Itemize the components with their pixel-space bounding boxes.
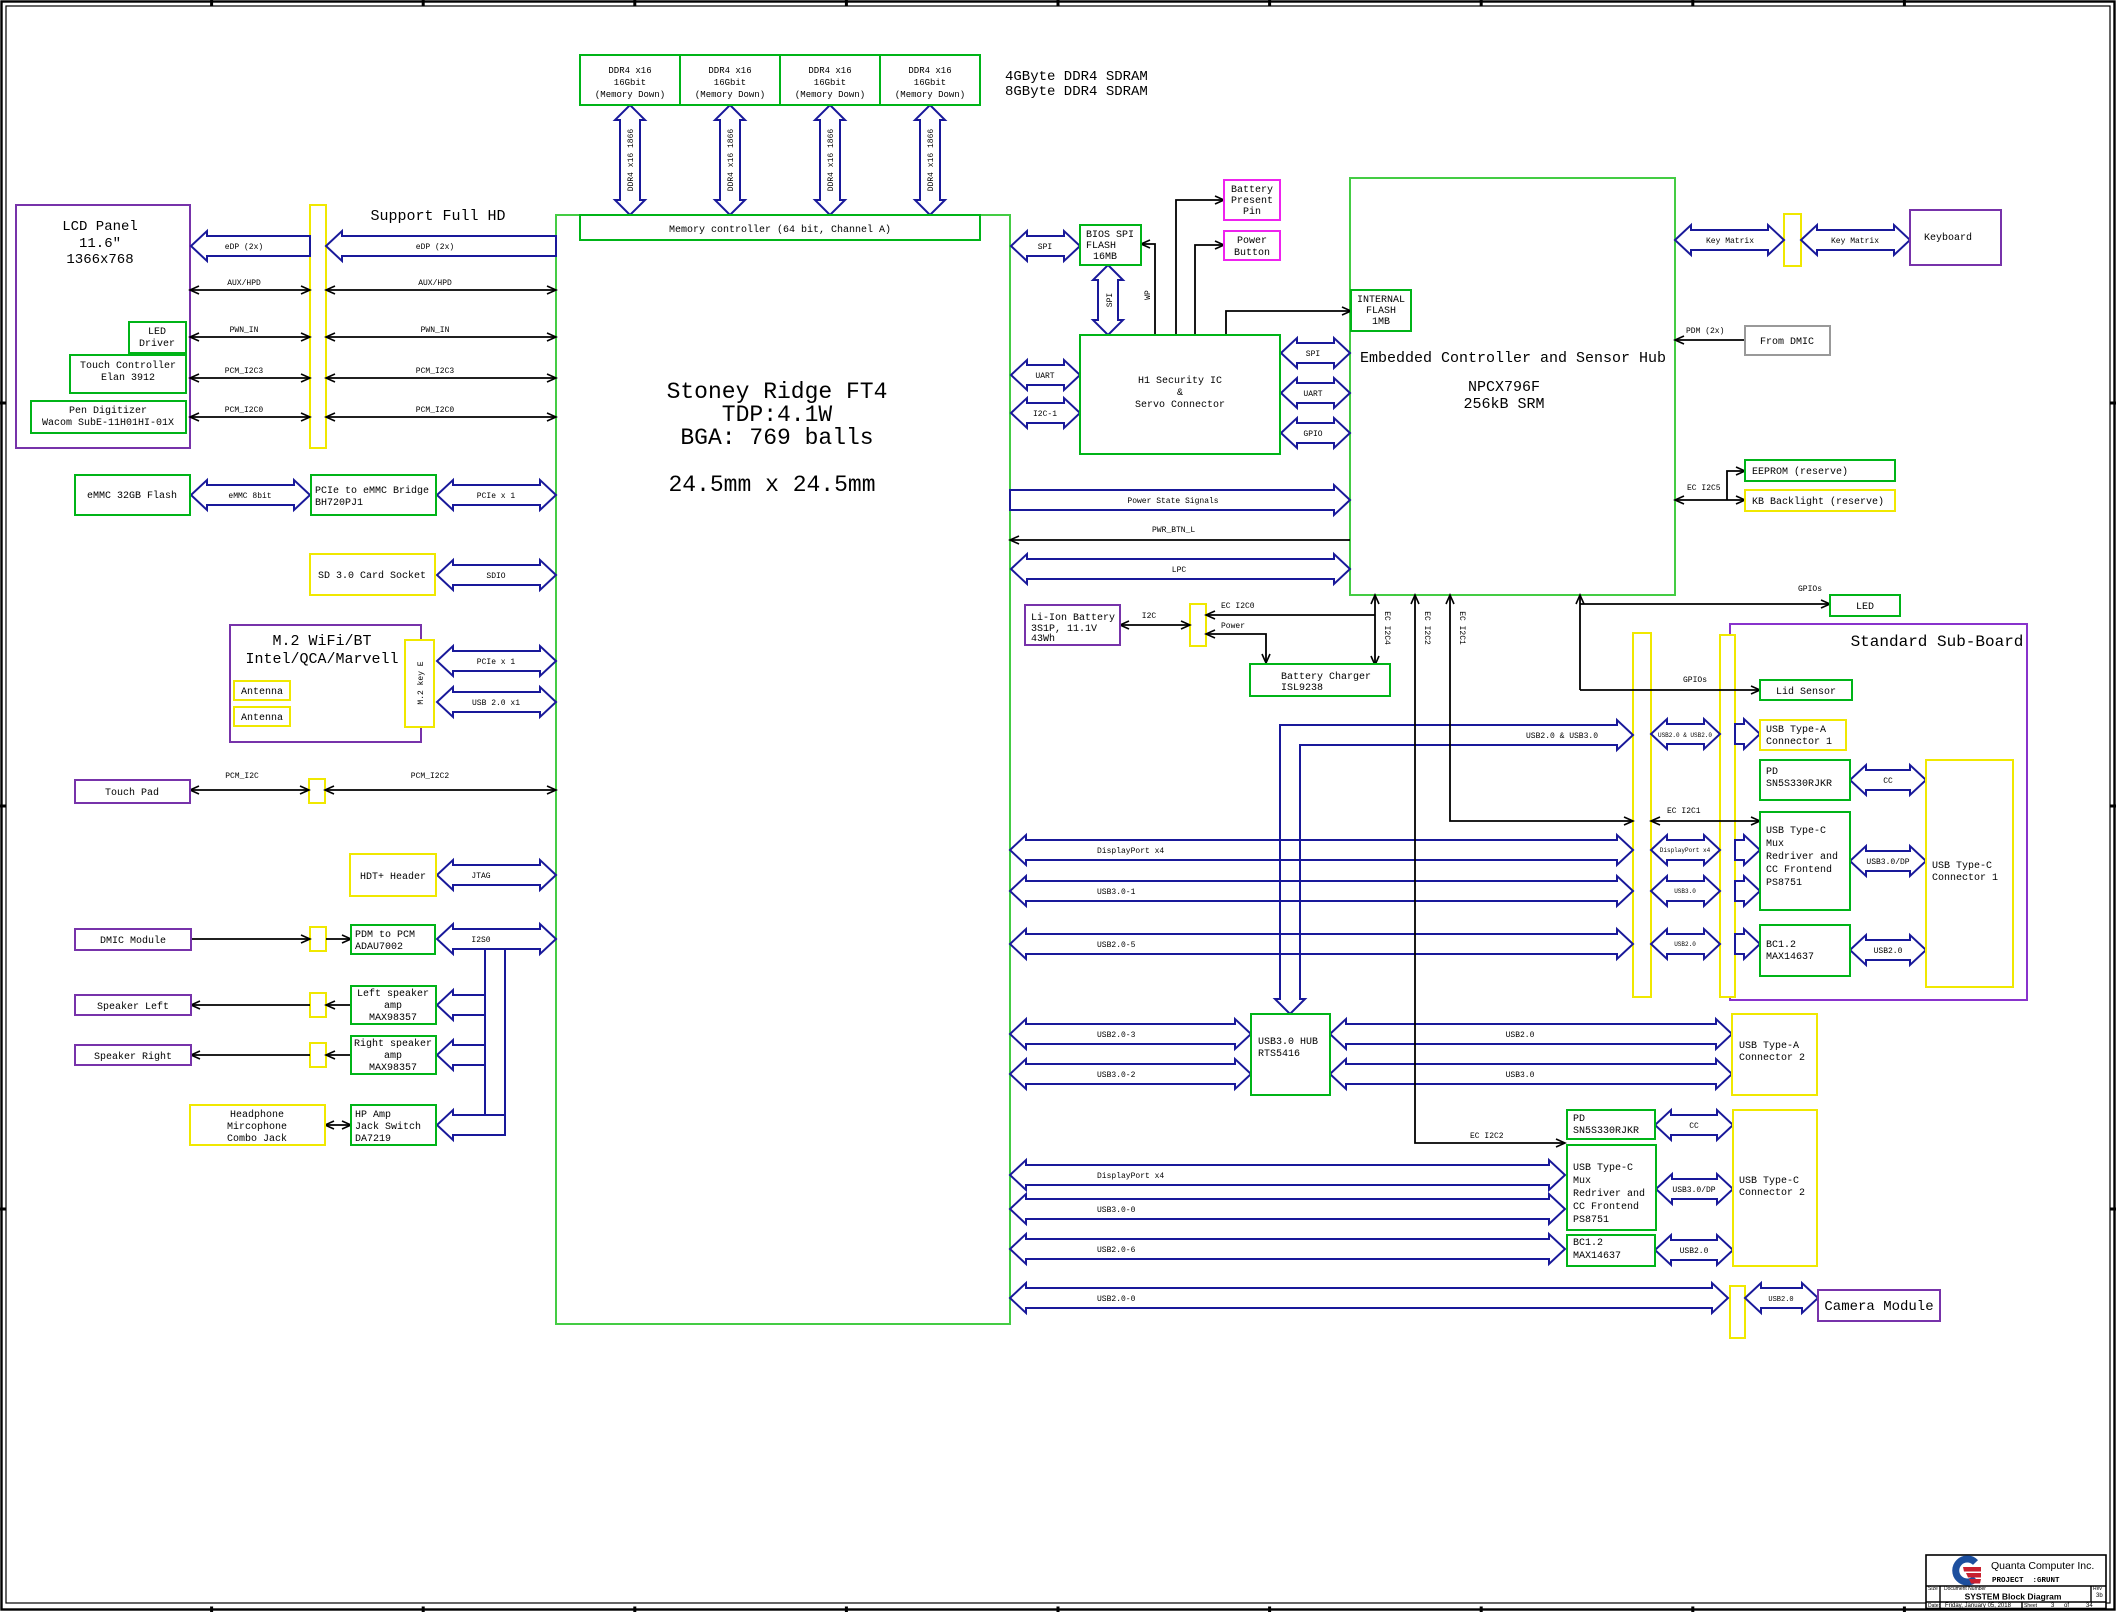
bus DDR4 channel arrows	[615, 105, 645, 215]
svg-text:Support Full HD: Support Full HD	[370, 208, 505, 225]
svg-text:1366x768: 1366x768	[66, 252, 133, 268]
svg-text:USB Type-C: USB Type-C	[1739, 1176, 1799, 1187]
svg-text:Lid Sensor: Lid Sensor	[1776, 686, 1836, 698]
bus USB3.0-2 SoC to hub	[1010, 1059, 1251, 1089]
touch pad box	[75, 780, 190, 803]
title block dividers	[1926, 1585, 2106, 1587]
svg-text:USB3.0/DP: USB3.0/DP	[1866, 858, 1909, 867]
svg-text:LED: LED	[1856, 602, 1874, 613]
svg-text:Connector 2: Connector 2	[1739, 1053, 1805, 1064]
PD 1 box	[1760, 760, 1850, 800]
connector (camera) small	[1730, 1286, 1745, 1338]
svg-text:USB2.0: USB2.0	[1768, 1296, 1793, 1304]
audio arrow to HP amp	[437, 1110, 505, 1140]
wire PCM_I2C touch pad	[190, 789, 309, 791]
svg-text:USB3.0-2: USB3.0-2	[1097, 1071, 1136, 1080]
svg-text:USB Type-C: USB Type-C	[1573, 1163, 1633, 1174]
wire Power to battery charger	[1206, 634, 1266, 663]
svg-text:SPI: SPI	[1038, 243, 1052, 252]
svg-text:USB3.0: USB3.0	[1506, 1071, 1535, 1080]
svg-text:H1 Security IC: H1 Security IC	[1138, 375, 1222, 387]
wire WP from H1 to BIOS flash	[1141, 244, 1155, 335]
svg-text:AUX/HPD: AUX/HPD	[227, 279, 261, 288]
svg-text:8GByte DDR4 SDRAM: 8GByte DDR4 SDRAM	[1005, 84, 1148, 100]
svg-text:CC Frontend: CC Frontend	[1766, 864, 1832, 876]
svg-text:UART: UART	[1035, 372, 1054, 381]
svg-text:CC: CC	[1689, 1122, 1699, 1131]
svg-text:PCIe x 1: PCIe x 1	[477, 492, 516, 501]
bus Key Matrix connector to keyboard	[1801, 225, 1910, 255]
svg-text:EC I2C4: EC I2C4	[1382, 611, 1391, 645]
svg-text:From DMIC: From DMIC	[1760, 337, 1814, 348]
sub-board connector bar 2	[1720, 635, 1735, 997]
svg-text:34: 34	[2086, 1603, 2093, 1609]
svg-text:PWN_IN: PWN_IN	[230, 326, 259, 335]
bus stub USB2.0 to BC1.2 1	[1735, 929, 1760, 959]
svg-text:USB2.0 & USB2.0: USB2.0 & USB2.0	[1658, 732, 1712, 739]
svg-text:DMIC Module: DMIC Module	[100, 935, 166, 947]
svg-text:HP Amp: HP Amp	[355, 1110, 391, 1121]
bus CC PD1 to USB-C connector 1	[1850, 765, 1926, 795]
svg-text:Power: Power	[1237, 236, 1267, 247]
USB type-A connector 1 box	[1760, 720, 1846, 750]
bus I2C-1 SoC to H1	[1011, 398, 1080, 428]
svg-text:Servo Connector: Servo Connector	[1135, 400, 1225, 411]
Quanta logo red stripes	[1963, 1567, 1981, 1572]
wire PWR_BTN_L EC to SoC	[1010, 539, 1350, 541]
wire PCM_I2C3 LCD side	[190, 377, 310, 379]
wire PWN_IN SoC side	[326, 336, 556, 338]
svg-text:PCM_I2C2: PCM_I2C2	[411, 772, 450, 781]
svg-text:BH720PJ1: BH720PJ1	[315, 498, 363, 509]
ADAU7002 box	[351, 925, 435, 954]
BIOS SPI flash box	[1080, 225, 1141, 265]
svg-text:Sheet: Sheet	[2024, 1603, 2038, 1609]
bus stub DisplayPort to mux 1	[1735, 835, 1760, 865]
headphone combo jack box	[190, 1105, 325, 1145]
svg-text:Touch Controller: Touch Controller	[80, 360, 176, 372]
bus Power State Signals SoC to EC	[1010, 485, 1350, 515]
svg-text:Battery: Battery	[1231, 185, 1273, 196]
bus eDP LCD side	[191, 231, 310, 261]
bus stub USB3.0 to mux 1	[1735, 876, 1760, 906]
bus USB2.0 hub to type-A connector 2	[1330, 1019, 1732, 1049]
svg-text:NPCX796F: NPCX796F	[1468, 379, 1540, 396]
svg-text:Headphone: Headphone	[230, 1109, 284, 1121]
svg-text:PCIe to eMMC Bridge: PCIe to eMMC Bridge	[315, 485, 429, 497]
wire H1 to internal flash	[1226, 311, 1351, 335]
svg-text:I2C-1: I2C-1	[1033, 410, 1057, 419]
svg-text:amp: amp	[384, 1051, 402, 1062]
wire GPIOs EC to LED	[1579, 595, 1581, 690]
svg-text:Combo Jack: Combo Jack	[227, 1133, 287, 1145]
svg-text:Left speaker: Left speaker	[357, 988, 429, 1000]
bus SPI SoC to BIOS flash	[1011, 231, 1080, 261]
svg-text:of: of	[2064, 1603, 2069, 1609]
svg-text:I2S0: I2S0	[471, 936, 490, 945]
svg-text:DisplayPort x4: DisplayPort x4	[1097, 1172, 1164, 1181]
svg-text:MAX98357: MAX98357	[369, 1063, 417, 1074]
sub-board connector bar 1	[1633, 633, 1651, 997]
svg-text:PCIe x 1: PCIe x 1	[477, 658, 516, 667]
bus USB3.0/DP mux2 to USB-C connector 2	[1656, 1174, 1733, 1204]
USB-C mux 2 box	[1567, 1145, 1656, 1230]
left speaker amp box	[351, 986, 436, 1024]
svg-text:Driver: Driver	[139, 338, 175, 350]
svg-text:SD 3.0 Card Socket: SD 3.0 Card Socket	[318, 570, 426, 582]
audio arrow to left speaker amp	[437, 990, 485, 1020]
svg-text:FLASH: FLASH	[1086, 241, 1116, 252]
wire EC I2C4 EC to battery charger	[1374, 595, 1376, 665]
LED driver box	[129, 322, 186, 353]
svg-text:256kB SRM: 256kB SRM	[1463, 396, 1544, 413]
svg-text:LPC: LPC	[1172, 566, 1187, 575]
connector (keyboard) small	[1784, 214, 1801, 266]
SoC main block Stoney Ridge FT4	[556, 215, 1010, 1324]
bus USB2.0 connector to camera module	[1745, 1283, 1818, 1313]
wire DMIC module to ADAU7002	[191, 938, 310, 940]
svg-text:MAX14637: MAX14637	[1766, 952, 1814, 963]
svg-text:BIOS SPI: BIOS SPI	[1086, 230, 1134, 241]
wire PCM_I2C0 SoC side	[326, 416, 556, 418]
svg-text:DDR4 x16 1866: DDR4 x16 1866	[727, 129, 736, 192]
svg-text:3b: 3b	[2096, 1593, 2103, 1599]
M.2 key E connector	[405, 640, 434, 727]
EEPROM box	[1745, 460, 1895, 481]
BC1.2 1 box	[1760, 925, 1850, 976]
DDR4 box 2	[680, 55, 780, 105]
svg-text:Wacom SubE-11H01HI-01X: Wacom SubE-11H01HI-01X	[42, 417, 174, 429]
LCD panel block	[16, 205, 190, 448]
wire right speaker amp to speaker right	[326, 1054, 351, 1056]
bus USB3.0-1 SoC to sub-board	[1010, 876, 1633, 906]
svg-text:EC I2C2: EC I2C2	[1422, 611, 1431, 645]
svg-text:GPIO: GPIO	[1303, 430, 1322, 439]
svg-text:Present: Present	[1231, 196, 1273, 207]
svg-text:DDR4 x16: DDR4 x16	[708, 66, 751, 76]
wire combo jack to HP amp	[325, 1124, 351, 1126]
wire PCM_I2C3 SoC side	[326, 377, 556, 379]
svg-text:Key Matrix: Key Matrix	[1831, 237, 1879, 246]
svg-text:RTS5416: RTS5416	[1258, 1049, 1300, 1060]
svg-text:USB2.0-6: USB2.0-6	[1097, 1246, 1136, 1255]
svg-text:&: &	[1177, 388, 1183, 399]
svg-text:DDR4 x16 1866: DDR4 x16 1866	[827, 129, 836, 192]
svg-text:eDP (2x): eDP (2x)	[416, 243, 454, 252]
svg-text:LED: LED	[148, 327, 166, 338]
svg-text:UART: UART	[1303, 390, 1322, 399]
DDR4 box 1	[580, 55, 680, 105]
svg-text:Connector 2: Connector 2	[1739, 1188, 1805, 1199]
bus USB3.0-0 SoC to USB-C mux 2	[1010, 1194, 1565, 1224]
power button box	[1224, 231, 1280, 260]
svg-text:USB2.0: USB2.0	[1680, 1247, 1709, 1256]
bus UART SoC to H1	[1011, 360, 1080, 390]
svg-text:SDIO: SDIO	[486, 572, 505, 581]
bus USB2.0-0 SoC to camera connector	[1010, 1283, 1728, 1313]
speaker right box	[75, 1045, 191, 1065]
wire EC I2C0	[1206, 614, 1375, 616]
svg-text:AUX/HPD: AUX/HPD	[418, 279, 452, 288]
battery present pin box	[1224, 180, 1280, 220]
USB type-C connector 1 box	[1926, 760, 2013, 987]
svg-text:PCM_I2C3: PCM_I2C3	[225, 367, 264, 376]
svg-text:USB 2.0 x1: USB 2.0 x1	[472, 699, 520, 708]
svg-text:Quanta Computer Inc.: Quanta Computer Inc.	[1991, 1560, 2094, 1572]
USB type-A connector 2 box	[1732, 1014, 1817, 1095]
memory controller box	[580, 215, 980, 240]
svg-text:DDR4 x16 1866: DDR4 x16 1866	[927, 129, 936, 192]
svg-text:16MB: 16MB	[1093, 252, 1117, 263]
svg-text:DisplayPort x4: DisplayPort x4	[1660, 847, 1711, 854]
wire GPIOs to lid sensor	[1580, 689, 1760, 691]
svg-text:Power State Signals: Power State Signals	[1127, 497, 1218, 506]
bus SDIO	[437, 560, 556, 590]
svg-text:USB2.0-3: USB2.0-3	[1097, 1031, 1136, 1040]
wire PCM_I2C2 to SoC	[325, 789, 556, 791]
bus USB3.0 between bars	[1651, 876, 1720, 906]
svg-text:CC Frontend: CC Frontend	[1573, 1201, 1639, 1213]
svg-text:eDP (2x): eDP (2x)	[225, 243, 263, 252]
bus Key Matrix EC to connector	[1675, 225, 1784, 255]
svg-text:USB Type-A: USB Type-A	[1739, 1041, 1799, 1052]
svg-text:Keyboard: Keyboard	[1924, 232, 1972, 244]
bus PCIe x1 M.2	[437, 646, 556, 676]
svg-text:ADAU7002: ADAU7002	[355, 942, 403, 953]
svg-text:24.5mm x 24.5mm: 24.5mm x 24.5mm	[668, 472, 875, 498]
speaker left box	[75, 995, 191, 1015]
bus USB2.0 BC1.2-1 to USB-C connector 1	[1850, 935, 1926, 965]
bus DisplayPort x4 SoC to sub-board	[1010, 835, 1633, 865]
svg-text:Speaker Left: Speaker Left	[97, 1001, 169, 1013]
svg-text:PWN_IN: PWN_IN	[421, 326, 450, 335]
svg-text:SYSTEM Block Diagram: SYSTEM Block Diagram	[1965, 1592, 2062, 1602]
wire EC I2C5 to EEPROM and KB backlight	[1675, 499, 1727, 501]
wire PWN_IN LCD side	[190, 336, 310, 338]
svg-text:4GByte DDR4 SDRAM: 4GByte DDR4 SDRAM	[1005, 69, 1148, 85]
svg-text:EC I2C5: EC I2C5	[1687, 484, 1721, 493]
bus CC PD2 to USB-C connector 2	[1655, 1110, 1733, 1140]
wire H1 to battery present pin	[1176, 200, 1224, 335]
bus GPIO H1 to EC	[1281, 418, 1350, 448]
bus USB3.0/DP mux1 to USB-C connector 1	[1850, 846, 1926, 876]
svg-text:Elan 3912: Elan 3912	[101, 372, 155, 384]
svg-text:1MB: 1MB	[1372, 317, 1390, 328]
svg-text:Connector 1: Connector 1	[1932, 873, 1998, 884]
svg-text:USB Type-C: USB Type-C	[1932, 861, 1992, 872]
svg-text:USB3.0 HUB: USB3.0 HUB	[1258, 1037, 1318, 1048]
svg-text:MAX14637: MAX14637	[1573, 1251, 1621, 1262]
DMIC module box	[75, 929, 191, 950]
bus UART H1 to EC	[1281, 378, 1350, 408]
bus USB2.0 x1 M.2	[437, 687, 556, 717]
embedded controller block	[1350, 178, 1675, 595]
SD card socket box	[310, 554, 435, 595]
svg-text:USB3.0/DP: USB3.0/DP	[1672, 1186, 1715, 1195]
svg-text:PROJECT :GRUNT: PROJECT :GRUNT	[1992, 1577, 2060, 1585]
svg-text:Memory controller (64 bit, Cha: Memory controller (64 bit, Channel A)	[669, 224, 891, 236]
svg-text:Battery Charger: Battery Charger	[1281, 671, 1371, 683]
svg-text:ISL9238: ISL9238	[1281, 683, 1323, 694]
svg-text:DDR4 x16 1866: DDR4 x16 1866	[627, 129, 636, 192]
bus JTAG	[437, 860, 556, 890]
wire left speaker amp to speaker left	[326, 1004, 351, 1006]
svg-text:Size: Size	[1928, 1586, 1938, 1592]
connector (DMIC) small	[310, 927, 326, 951]
svg-text:M.2 WiFi/BT: M.2 WiFi/BT	[272, 633, 371, 650]
svg-text:amp: amp	[384, 1001, 402, 1012]
bus eMMC 8bit	[191, 480, 310, 510]
svg-text:Date:: Date:	[1928, 1603, 1940, 1609]
pen digitizer box	[31, 401, 186, 433]
svg-text:USB3.0-0: USB3.0-0	[1097, 1206, 1136, 1215]
svg-text:PCM_I2C: PCM_I2C	[225, 772, 259, 781]
svg-text:Connector 1: Connector 1	[1766, 737, 1832, 748]
svg-text:eMMC 8bit: eMMC 8bit	[228, 492, 271, 501]
lid sensor box	[1760, 680, 1852, 700]
bus USB2.0 between bars	[1651, 929, 1720, 959]
svg-text:SPI: SPI	[1306, 350, 1320, 359]
svg-text:Button: Button	[1234, 248, 1270, 259]
title block frame	[1926, 1555, 2106, 1609]
svg-text:PS8751: PS8751	[1766, 878, 1802, 889]
svg-text:Mircophone: Mircophone	[227, 1121, 287, 1133]
svg-text:BC1.2: BC1.2	[1766, 940, 1796, 951]
svg-text:Pen Digitizer: Pen Digitizer	[69, 405, 147, 417]
bus SPI BIOS flash to H1 (vertical)	[1093, 265, 1123, 335]
Li-Ion battery box	[1025, 605, 1120, 645]
DDR4 box 3	[780, 55, 880, 105]
DDR4 box 4	[880, 55, 980, 105]
svg-text:EC I2C1: EC I2C1	[1667, 807, 1701, 816]
wire PDM from DMIC to EC	[1675, 339, 1745, 341]
svg-text:Rev: Rev	[2093, 1586, 2102, 1592]
antenna box 2	[234, 707, 290, 726]
svg-text:WP: WP	[1144, 290, 1153, 300]
Quanta logo blue ring	[1956, 1559, 1976, 1582]
KB backlight box	[1745, 490, 1895, 511]
svg-text:11.6": 11.6"	[79, 236, 121, 252]
svg-text:PCM_I2C0: PCM_I2C0	[416, 406, 455, 415]
svg-text:Touch Pad: Touch Pad	[105, 787, 159, 799]
svg-text:PDM to PCM: PDM to PCM	[355, 930, 415, 941]
bus USB2.0 and USB3.0 to sub-board with drop to hub (L-shape)	[1275, 720, 1633, 1014]
svg-text:DDR4 x16: DDR4 x16	[808, 66, 851, 76]
svg-text:EC I2C2: EC I2C2	[1470, 1132, 1504, 1141]
svg-text:16Gbit: 16Gbit	[614, 78, 646, 88]
svg-text:Redriver and: Redriver and	[1766, 851, 1838, 863]
wire AUX/HPD SoC side	[326, 289, 556, 291]
USB-C mux 1 box	[1760, 812, 1850, 910]
svg-text:USB2.0-0: USB2.0-0	[1097, 1295, 1136, 1304]
svg-text:(Memory Down): (Memory Down)	[795, 90, 865, 100]
BC1.2 2 box	[1567, 1235, 1655, 1266]
svg-text:SN5S330RJKR: SN5S330RJKR	[1573, 1126, 1639, 1137]
wire EC I2C1 EC to sub-board	[1450, 595, 1633, 821]
right speaker amp box	[351, 1036, 436, 1074]
wire PCM_I2C0 LCD side	[190, 416, 310, 418]
wire EC I2C2 EC to USB-C mux 2	[1415, 595, 1565, 1143]
svg-text:DDR4 x16: DDR4 x16	[908, 66, 951, 76]
svg-text:BC1.2: BC1.2	[1573, 1238, 1603, 1249]
wire I2C battery to connector	[1120, 624, 1190, 626]
internal flash box	[1351, 290, 1411, 331]
audio I2S bus pipe lines	[484, 949, 486, 995]
bus USB2.0-5 SoC to sub-board	[1010, 929, 1633, 959]
svg-text:BGA: 769 balls: BGA: 769 balls	[680, 425, 873, 451]
svg-text:PD: PD	[1573, 1114, 1585, 1125]
svg-text:Pin: Pin	[1243, 206, 1261, 218]
svg-text:(Memory Down): (Memory Down)	[895, 90, 965, 100]
svg-text:Embedded Controller and Sensor: Embedded Controller and Sensor Hub	[1360, 350, 1666, 367]
svg-text:MAX98357: MAX98357	[369, 1013, 417, 1024]
svg-text:Jack Switch: Jack Switch	[355, 1121, 421, 1133]
svg-text:Mux: Mux	[1573, 1176, 1591, 1187]
svg-text:M.2 key E: M.2 key E	[417, 661, 426, 704]
svg-text:PWR_BTN_L: PWR_BTN_L	[1152, 526, 1195, 535]
svg-text:USB2.0: USB2.0	[1506, 1031, 1535, 1040]
antenna box 1	[234, 681, 290, 700]
svg-text:USB Type-C: USB Type-C	[1766, 826, 1826, 837]
svg-text:FLASH: FLASH	[1366, 306, 1396, 317]
svg-text:(Memory Down): (Memory Down)	[695, 90, 765, 100]
svg-text:JTAG: JTAG	[471, 872, 490, 881]
H1 security IC box	[1080, 335, 1280, 454]
svg-text:Antenna: Antenna	[241, 687, 283, 698]
connector (battery) small	[1190, 604, 1206, 646]
svg-text:USB3.0: USB3.0	[1674, 888, 1696, 895]
USB3.0 hub box	[1251, 1014, 1330, 1095]
svg-text:Intel/QCA/Marvell: Intel/QCA/Marvell	[245, 651, 398, 668]
bus eDP SoC side	[326, 231, 556, 261]
svg-text:DisplayPort x4: DisplayPort x4	[1097, 847, 1164, 856]
svg-text:INTERNAL: INTERNAL	[1357, 295, 1405, 306]
svg-text:USB Type-A: USB Type-A	[1766, 725, 1826, 736]
bus I2S0 ADAU7002 to SoC	[437, 924, 556, 954]
battery charger box	[1250, 664, 1390, 696]
svg-text:Friday, January 05, 2018: Friday, January 05, 2018	[1945, 1603, 2012, 1609]
wire AUX/HPD LCD side	[190, 289, 310, 291]
svg-text:LCD Panel: LCD Panel	[62, 219, 138, 235]
svg-text:SPI: SPI	[1106, 293, 1115, 307]
svg-text:16Gbit: 16Gbit	[714, 78, 746, 88]
svg-text:CC: CC	[1883, 777, 1893, 786]
HP amp DA7219 box	[351, 1105, 436, 1145]
bus DisplayPort x4 between bars	[1651, 835, 1720, 865]
svg-text:PCM_I2C3: PCM_I2C3	[416, 367, 455, 376]
svg-text:USB2.0 & USB3.0: USB2.0 & USB3.0	[1526, 732, 1598, 741]
connector (speaker left) small	[310, 993, 326, 1017]
svg-text:Li-Ion Battery: Li-Ion Battery	[1031, 612, 1115, 624]
svg-text:(Memory Down): (Memory Down)	[595, 90, 665, 100]
svg-text:USB2.0: USB2.0	[1674, 941, 1696, 948]
svg-text:16Gbit: 16Gbit	[914, 78, 946, 88]
bus stub to USB type-A connector 1	[1735, 719, 1760, 749]
svg-text:GPIOs: GPIOs	[1683, 676, 1707, 685]
svg-text:EC I2C0: EC I2C0	[1221, 602, 1255, 611]
connector bar (LCD cable)	[310, 205, 326, 448]
svg-text:Redriver and: Redriver and	[1573, 1188, 1645, 1200]
svg-text:DA7219: DA7219	[355, 1134, 391, 1145]
svg-text:USB3.0-1: USB3.0-1	[1097, 888, 1136, 897]
svg-text:Speaker Right: Speaker Right	[94, 1051, 172, 1063]
svg-text:USB2.0: USB2.0	[1874, 947, 1903, 956]
bus USB2.0-3 SoC to hub	[1010, 1019, 1251, 1049]
connector (speaker right) small	[310, 1043, 326, 1067]
bus USB2.0 BC1.2-2 to USB-C connector 2	[1655, 1235, 1733, 1265]
bus USB2.0+USB2.0 between sub-board bars	[1651, 719, 1720, 749]
svg-text:16Gbit: 16Gbit	[814, 78, 846, 88]
